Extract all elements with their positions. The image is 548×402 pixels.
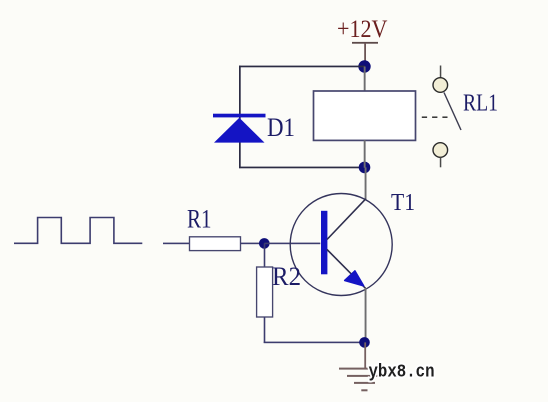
wire relay column top [364, 67, 366, 92]
wire R2 bottom vertical [264, 317, 266, 343]
ground bar 1 [339, 368, 389, 370]
contact stub bottom [440, 157, 442, 167]
power rail bar [352, 42, 378, 44]
contact terminal top circle [433, 78, 448, 93]
contact terminal bottom circle [433, 143, 448, 158]
node base junction [259, 238, 270, 249]
wire emitter column [365, 288, 367, 343]
wire base [264, 243, 320, 245]
svg-text:R2: R2 [272, 262, 301, 291]
dashed actuator line [422, 116, 448, 118]
ground bar 4 [361, 389, 367, 391]
wire base node to R2 [264, 243, 266, 267]
svg-text:RL1: RL1 [463, 91, 498, 117]
svg-text:T1: T1 [391, 190, 415, 216]
transistor T1 base bar [321, 211, 327, 274]
transistor T1 collector line [327, 199, 366, 240]
wire collector column [365, 167, 367, 200]
svg-text:D1: D1 [267, 113, 295, 142]
wire R2 to emitter node [264, 342, 365, 344]
svg-text:ybx8.cn: ybx8.cn [369, 362, 435, 383]
input square wave [14, 218, 142, 244]
wire power stem [364, 43, 366, 67]
diode D1 triangle [214, 118, 265, 143]
transistor T1 emitter line [327, 250, 366, 289]
ground bar 3 [354, 382, 375, 384]
resistor R2 [257, 267, 273, 317]
transistor T1 circle [290, 194, 392, 296]
diode D1 cathode bar [213, 114, 266, 118]
wire bottom horizontal (diode to relay node) [239, 167, 365, 169]
switch arm [444, 93, 461, 131]
wire left vertical (diode branch) [239, 66, 241, 169]
wire R1 to base node [241, 243, 265, 245]
resistor R1 [190, 237, 241, 251]
wire input stub [163, 243, 190, 245]
svg-text:+12V: +12V [337, 16, 388, 43]
contact stub top [440, 66, 442, 79]
node emitter junction [359, 337, 370, 348]
svg-text:R1: R1 [187, 205, 212, 234]
relay coil RL1 (rectangle) [314, 91, 416, 140]
transistor T1 emitter arrow [345, 271, 364, 286]
node top junction [358, 60, 370, 72]
ground bar 2 [347, 375, 383, 377]
node relay bottom junction [359, 162, 371, 174]
wire ground stem [364, 342, 366, 368]
wire relay column bottom [364, 140, 366, 168]
wire top horizontal [239, 66, 365, 68]
